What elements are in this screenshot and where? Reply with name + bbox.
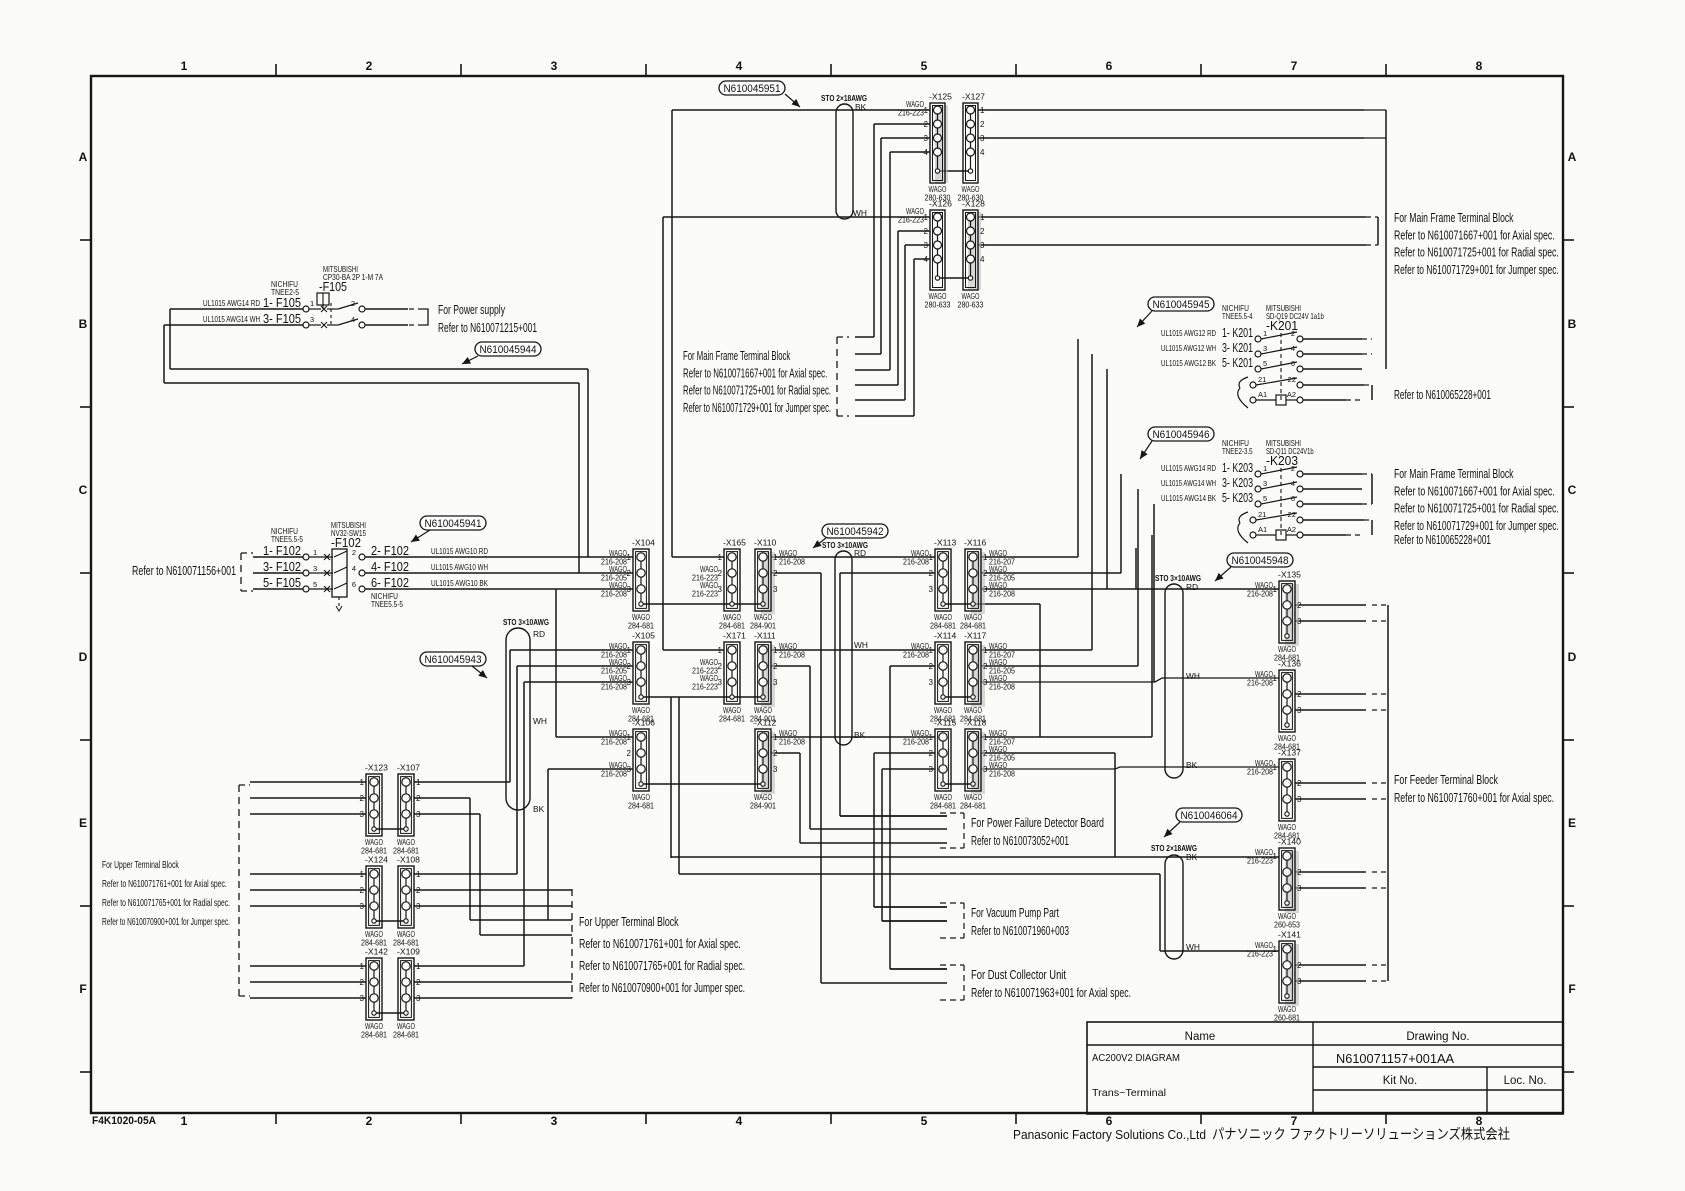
svg-text:284-681: 284-681	[719, 621, 745, 631]
svg-text:N610045944: N610045944	[480, 344, 537, 356]
svg-text:BK: BK	[1186, 760, 1198, 770]
svg-text:4: 4	[980, 255, 985, 264]
svg-text:Panasonic Factory Solutions Co: Panasonic Factory Solutions Co.,Ltd	[1013, 1127, 1206, 1142]
svg-text:4: 4	[352, 564, 356, 573]
svg-text:Refer to N610071761+001 for Ax: Refer to N610071761+001 for Axial spec.	[102, 879, 227, 890]
svg-text:3: 3	[313, 564, 317, 573]
svg-text:3: 3	[310, 315, 314, 324]
svg-text:3: 3	[980, 134, 985, 143]
svg-text:216-223: 216-223	[898, 108, 924, 118]
svg-text:216-208: 216-208	[989, 769, 1015, 779]
svg-text:パナソニック ファクトリーソリューションズ株式会社: パナソニック ファクトリーソリューションズ株式会社	[1212, 1127, 1510, 1143]
svg-text:280-633: 280-633	[958, 300, 984, 310]
svg-text:1: 1	[360, 778, 365, 787]
svg-text:For Upper Terminal Block: For Upper Terminal Block	[579, 914, 679, 929]
svg-text:216-223: 216-223	[1247, 856, 1273, 866]
svg-text:Refer to N610071760+001 for Ax: Refer to N610071760+001 for Axial spec.	[1394, 791, 1554, 805]
svg-text:For Dust Collector Unit: For Dust Collector Unit	[971, 968, 1066, 982]
svg-text:3: 3	[1297, 977, 1302, 986]
svg-text:1: 1	[980, 106, 985, 115]
svg-text:2: 2	[366, 59, 373, 73]
svg-text:284-681: 284-681	[960, 801, 986, 811]
svg-text:3- F105: 3- F105	[263, 311, 301, 326]
svg-text:-X111: -X111	[754, 631, 776, 641]
svg-text:1: 1	[313, 548, 317, 557]
svg-text:TNEE5.5-5: TNEE5.5-5	[371, 599, 403, 609]
svg-text:3: 3	[416, 810, 421, 819]
svg-text:2: 2	[360, 794, 365, 803]
svg-text:2: 2	[983, 569, 988, 578]
svg-text:284-681: 284-681	[628, 621, 654, 631]
svg-text:RD: RD	[533, 629, 545, 639]
svg-text:-X104: -X104	[632, 538, 655, 548]
svg-text:Refer to N610071960+003: Refer to N610071960+003	[971, 924, 1069, 938]
svg-text:-X125: -X125	[929, 92, 952, 102]
svg-text:Refer to N610071765+001 for Ra: Refer to N610071765+001 for Radial spec.	[579, 958, 745, 973]
svg-text:Refer to N610065228+001: Refer to N610065228+001	[1394, 388, 1491, 402]
svg-text:-X140: -X140	[1278, 837, 1301, 847]
svg-text:For Main Frame Terminal Block: For Main Frame Terminal Block	[683, 349, 791, 363]
svg-text:3: 3	[1297, 617, 1302, 626]
svg-text:E: E	[1568, 816, 1576, 830]
svg-text:N610045942: N610045942	[827, 526, 884, 538]
svg-text:216-208: 216-208	[989, 682, 1015, 692]
svg-text:22: 22	[1288, 375, 1296, 384]
svg-text:284-681: 284-681	[361, 1030, 387, 1040]
svg-text:3: 3	[551, 1114, 558, 1128]
svg-text:Refer to N610073052+001: Refer to N610073052+001	[971, 834, 1069, 848]
svg-text:6: 6	[1106, 1114, 1113, 1128]
svg-text:-X123: -X123	[365, 763, 388, 773]
svg-text:N610045945: N610045945	[1153, 299, 1210, 311]
svg-text:STO 3×10AWG: STO 3×10AWG	[503, 617, 549, 627]
svg-text:For Main Frame Terminal Block: For Main Frame Terminal Block	[1394, 211, 1514, 225]
svg-text:1: 1	[773, 646, 778, 655]
svg-text:-X106: -X106	[632, 718, 655, 728]
svg-text:6: 6	[1291, 359, 1295, 368]
svg-text:N610045946: N610045946	[1153, 429, 1210, 441]
svg-text:Refer to N610071667+001 for Ax: Refer to N610071667+001 for Axial spec.	[683, 366, 827, 380]
svg-text:1- K203: 1- K203	[1222, 460, 1253, 475]
svg-text:3: 3	[1297, 706, 1302, 715]
svg-text:3: 3	[416, 994, 421, 1003]
svg-text:BK: BK	[855, 102, 867, 112]
svg-text:Refer to N610071725+001 for Ra: Refer to N610071725+001 for Radial spec.	[1394, 246, 1559, 260]
svg-text:UL1015 AWG10 RD: UL1015 AWG10 RD	[431, 546, 488, 556]
svg-text:216-208: 216-208	[601, 682, 627, 692]
svg-text:A2: A2	[1287, 525, 1296, 534]
svg-text:5: 5	[921, 1114, 928, 1128]
svg-text:1: 1	[181, 59, 188, 73]
svg-text:2: 2	[416, 886, 421, 895]
svg-text:B: B	[79, 317, 88, 331]
svg-text:1: 1	[773, 733, 778, 742]
svg-text:-X124: -X124	[365, 855, 388, 865]
svg-text:1: 1	[360, 962, 365, 971]
svg-text:216-208: 216-208	[989, 589, 1015, 599]
svg-text:5: 5	[1263, 494, 1267, 503]
svg-text:B: B	[1568, 317, 1577, 331]
svg-text:2: 2	[1297, 690, 1302, 699]
svg-text:TNEE2-3.5: TNEE2-3.5	[1222, 446, 1253, 456]
svg-text:216-223: 216-223	[692, 589, 718, 599]
svg-text:-X114: -X114	[934, 631, 957, 641]
svg-text:3: 3	[360, 902, 365, 911]
svg-text:2: 2	[983, 749, 988, 758]
svg-text:3: 3	[773, 678, 778, 687]
svg-text:1: 1	[416, 962, 421, 971]
svg-text:RD: RD	[854, 548, 866, 558]
svg-text:-X126: -X126	[929, 199, 952, 209]
svg-text:-X136: -X136	[1278, 659, 1301, 669]
svg-text:3: 3	[929, 585, 934, 594]
svg-text:216-208: 216-208	[601, 737, 627, 747]
svg-text:N610046064: N610046064	[1181, 810, 1238, 822]
svg-text:-F102: -F102	[331, 536, 361, 550]
svg-text:1: 1	[627, 733, 632, 742]
svg-text:1: 1	[1273, 763, 1278, 772]
svg-text:2: 2	[360, 978, 365, 987]
svg-text:216-208: 216-208	[903, 737, 929, 747]
svg-text:RD: RD	[1186, 582, 1198, 592]
svg-text:UL1015 AWG10 WH: UL1015 AWG10 WH	[431, 562, 488, 572]
svg-text:-X135: -X135	[1278, 570, 1301, 580]
svg-text:-X137: -X137	[1278, 748, 1301, 758]
svg-text:1: 1	[929, 553, 934, 562]
svg-text:-X171: -X171	[723, 631, 746, 641]
svg-text:BK: BK	[854, 730, 866, 740]
svg-text:2: 2	[366, 1114, 373, 1128]
svg-text:1: 1	[924, 213, 929, 222]
svg-text:C: C	[1568, 483, 1577, 497]
svg-text:1: 1	[983, 553, 988, 562]
svg-text:D: D	[1568, 650, 1577, 664]
svg-text:AC200V2 DIAGRAM: AC200V2 DIAGRAM	[1092, 1052, 1180, 1064]
svg-text:UL1015 AWG12 BK: UL1015 AWG12 BK	[1161, 358, 1216, 368]
svg-text:4- F102: 4- F102	[371, 559, 409, 574]
svg-text:-F105: -F105	[319, 280, 347, 294]
svg-text:2: 2	[929, 662, 934, 671]
svg-text:UL1015 AWG12 RD: UL1015 AWG12 RD	[1161, 328, 1216, 338]
svg-text:1: 1	[416, 778, 421, 787]
svg-text:4: 4	[1291, 479, 1295, 488]
svg-text:D: D	[79, 650, 88, 664]
svg-text:Drawing No.: Drawing No.	[1406, 1031, 1469, 1043]
svg-text:5: 5	[1263, 359, 1267, 368]
svg-text:3: 3	[929, 765, 934, 774]
svg-text:2: 2	[924, 120, 929, 129]
svg-text:Loc. No.: Loc. No.	[1504, 1075, 1547, 1087]
svg-text:A: A	[1568, 150, 1577, 164]
svg-text:1: 1	[929, 733, 934, 742]
svg-text:1: 1	[416, 870, 421, 879]
svg-text:5: 5	[921, 59, 928, 73]
svg-text:22: 22	[1288, 510, 1296, 519]
svg-text:4: 4	[736, 59, 743, 73]
svg-text:N610045943: N610045943	[425, 654, 482, 666]
svg-text:-X108: -X108	[397, 855, 420, 865]
svg-text:3: 3	[773, 765, 778, 774]
svg-text:Refer to N610071215+001: Refer to N610071215+001	[438, 321, 537, 335]
svg-text:Refer to N610071761+001 for Ax: Refer to N610071761+001 for Axial spec.	[579, 936, 741, 951]
svg-text:3: 3	[1297, 884, 1302, 893]
svg-text:TNEE5.5-5: TNEE5.5-5	[271, 534, 303, 544]
svg-text:-X116: -X116	[964, 538, 987, 548]
svg-text:A1: A1	[1258, 525, 1267, 534]
svg-text:WH: WH	[533, 716, 547, 726]
svg-text:1: 1	[773, 553, 778, 562]
svg-text:UL1015 AWG14 WH: UL1015 AWG14 WH	[1161, 478, 1216, 488]
svg-text:260-653: 260-653	[1274, 920, 1300, 930]
svg-text:F: F	[1568, 982, 1575, 996]
svg-text:Refer to N610071729+001 for Ju: Refer to N610071729+001 for Jumper spec.	[1394, 519, 1559, 533]
svg-text:BK: BK	[533, 804, 545, 814]
svg-text:2: 2	[416, 794, 421, 803]
svg-text:Refer to N610070900+001 for Ju: Refer to N610070900+001 for Jumper spec.	[102, 917, 230, 928]
svg-text:5- K201: 5- K201	[1222, 355, 1253, 370]
svg-text:3: 3	[416, 902, 421, 911]
svg-text:1: 1	[1273, 945, 1278, 954]
svg-text:3: 3	[983, 585, 988, 594]
svg-text:8: 8	[1476, 59, 1483, 73]
svg-text:-X141: -X141	[1278, 930, 1301, 940]
svg-text:6: 6	[1291, 494, 1295, 503]
svg-text:7: 7	[1291, 59, 1298, 73]
svg-text:E: E	[79, 816, 87, 830]
svg-text:284-681: 284-681	[393, 1030, 419, 1040]
svg-text:4: 4	[351, 315, 355, 324]
svg-text:TNEE2-5: TNEE2-5	[271, 287, 299, 297]
svg-text:-X118: -X118	[964, 718, 987, 728]
svg-text:4: 4	[1291, 344, 1295, 353]
svg-text:3: 3	[983, 678, 988, 687]
svg-text:UL1015 AWG14 WH: UL1015 AWG14 WH	[203, 314, 260, 324]
svg-text:Refer to N610065228+001: Refer to N610065228+001	[1394, 533, 1491, 547]
svg-text:1: 1	[718, 553, 723, 562]
svg-text:216-208: 216-208	[779, 650, 805, 660]
svg-text:2: 2	[627, 569, 632, 578]
svg-text:1: 1	[310, 299, 314, 308]
svg-text:2: 2	[1297, 779, 1302, 788]
svg-text:1: 1	[1273, 852, 1278, 861]
svg-text:284-681: 284-681	[930, 801, 956, 811]
svg-text:Refer to N610071725+001 for Ra: Refer to N610071725+001 for Radial spec.	[683, 384, 831, 398]
svg-text:4: 4	[924, 255, 929, 264]
svg-text:Refer to N610071729+001 for Ju: Refer to N610071729+001 for Jumper spec.	[683, 401, 831, 415]
svg-text:3- F102: 3- F102	[263, 559, 301, 574]
svg-text:2: 2	[360, 886, 365, 895]
svg-text:N610045948: N610045948	[1232, 555, 1289, 567]
svg-text:2: 2	[773, 569, 778, 578]
svg-text:216-208: 216-208	[601, 769, 627, 779]
svg-text:2: 2	[980, 120, 985, 129]
svg-text:1- F105: 1- F105	[263, 295, 301, 310]
svg-text:216-208: 216-208	[1247, 589, 1273, 599]
svg-text:284-901: 284-901	[750, 801, 776, 811]
svg-text:21: 21	[1258, 375, 1266, 384]
svg-text:3: 3	[627, 765, 632, 774]
svg-text:For Power supply: For Power supply	[438, 303, 506, 317]
svg-text:1: 1	[627, 553, 632, 562]
svg-text:1: 1	[929, 646, 934, 655]
svg-text:284-681: 284-681	[628, 801, 654, 811]
svg-text:7: 7	[1291, 1114, 1298, 1128]
svg-text:2: 2	[983, 662, 988, 671]
svg-text:284-901: 284-901	[750, 621, 776, 631]
svg-text:5- F105: 5- F105	[263, 575, 301, 590]
svg-text:For Vacuum Pump Part: For Vacuum Pump Part	[971, 906, 1059, 920]
svg-text:UL1015 AWG12 WH: UL1015 AWG12 WH	[1161, 343, 1216, 353]
svg-text:3: 3	[773, 585, 778, 594]
svg-text:4: 4	[980, 148, 985, 157]
svg-text:6: 6	[1106, 59, 1113, 73]
svg-text:2: 2	[773, 662, 778, 671]
svg-text:5- K203: 5- K203	[1222, 490, 1253, 505]
svg-text:2: 2	[773, 749, 778, 758]
svg-text:A1: A1	[1258, 390, 1267, 399]
svg-text:-X110: -X110	[754, 538, 777, 548]
svg-text:2: 2	[929, 749, 934, 758]
svg-text:2: 2	[718, 569, 723, 578]
svg-text:Refer to N610071963+001 for Ax: Refer to N610071963+001 for Axial spec.	[971, 986, 1131, 1000]
svg-text:For Feeder Terminal Block: For Feeder Terminal Block	[1394, 773, 1499, 787]
svg-text:2: 2	[351, 299, 355, 308]
svg-text:216-208: 216-208	[601, 589, 627, 599]
svg-text:-X127: -X127	[962, 92, 985, 102]
svg-text:284-681: 284-681	[960, 621, 986, 631]
svg-text:N610045951: N610045951	[724, 83, 781, 95]
svg-text:2: 2	[929, 569, 934, 578]
svg-text:-X115: -X115	[934, 718, 957, 728]
svg-text:3- K201: 3- K201	[1222, 340, 1253, 355]
svg-text:-X128: -X128	[962, 199, 985, 209]
svg-text:3: 3	[1263, 344, 1267, 353]
svg-text:Kit No.: Kit No.	[1383, 1075, 1418, 1087]
svg-text:-X165: -X165	[723, 538, 746, 548]
svg-text:2: 2	[718, 662, 723, 671]
svg-text:3: 3	[718, 585, 723, 594]
svg-text:284-681: 284-681	[930, 621, 956, 631]
svg-text:216-208: 216-208	[903, 557, 929, 567]
svg-text:3: 3	[627, 678, 632, 687]
svg-text:216-208: 216-208	[1247, 678, 1273, 688]
svg-text:2- F102: 2- F102	[371, 543, 409, 558]
svg-text:216-223: 216-223	[898, 215, 924, 225]
svg-text:2: 2	[980, 227, 985, 236]
svg-text:-X113: -X113	[934, 538, 957, 548]
svg-text:3: 3	[980, 241, 985, 250]
svg-text:1: 1	[983, 733, 988, 742]
svg-text:Refer to N610071667+001 for Ax: Refer to N610071667+001 for Axial spec.	[1394, 228, 1555, 242]
svg-text:2: 2	[1297, 961, 1302, 970]
svg-text:2: 2	[416, 978, 421, 987]
svg-text:1- F102: 1- F102	[263, 543, 301, 558]
svg-text:Refer to N610071725+001 for Ra: Refer to N610071725+001 for Radial spec.	[1394, 502, 1559, 516]
svg-text:BK: BK	[1186, 852, 1198, 862]
svg-text:Refer to N610071667+001 for Ax: Refer to N610071667+001 for Axial spec.	[1394, 484, 1555, 498]
svg-text:2: 2	[627, 749, 632, 758]
svg-text:-X105: -X105	[632, 631, 655, 641]
svg-text:-X109: -X109	[397, 947, 420, 957]
svg-text:UL1015 AWG14 RD: UL1015 AWG14 RD	[1161, 463, 1216, 473]
svg-text:TNEE5.5-4: TNEE5.5-4	[1222, 311, 1253, 321]
svg-text:WH: WH	[854, 640, 868, 650]
svg-text:1: 1	[924, 106, 929, 115]
svg-text:2: 2	[1297, 868, 1302, 877]
svg-text:-X142: -X142	[365, 947, 388, 957]
svg-text:260-681: 260-681	[1274, 1013, 1300, 1023]
svg-text:3: 3	[929, 678, 934, 687]
svg-text:UL1015 AWG14 BK: UL1015 AWG14 BK	[1161, 493, 1216, 503]
svg-text:For Main Frame Terminal Block: For Main Frame Terminal Block	[1394, 467, 1514, 481]
svg-text:1: 1	[181, 1114, 188, 1128]
svg-text:1- K201: 1- K201	[1222, 325, 1253, 340]
svg-text:Refer to N610071765+001 for Ra: Refer to N610071765+001 for Radial spec.	[102, 898, 230, 909]
svg-text:WH: WH	[853, 208, 867, 218]
svg-text:3: 3	[983, 765, 988, 774]
svg-text:3- K203: 3- K203	[1222, 475, 1253, 490]
svg-text:2: 2	[627, 662, 632, 671]
svg-text:UL1015 AWG10 BK: UL1015 AWG10 BK	[431, 578, 488, 588]
svg-text:6- F102: 6- F102	[371, 575, 409, 590]
svg-text:3: 3	[360, 810, 365, 819]
svg-text:8: 8	[1476, 1114, 1483, 1128]
svg-text:For Upper Terminal Block: For Upper Terminal Block	[102, 860, 179, 871]
svg-text:3: 3	[1297, 795, 1302, 804]
svg-text:F: F	[79, 982, 86, 996]
svg-text:3: 3	[718, 678, 723, 687]
svg-text:5: 5	[313, 580, 317, 589]
svg-text:-K201: -K201	[1266, 319, 1298, 333]
svg-text:-K203: -K203	[1266, 454, 1298, 468]
svg-text:3: 3	[551, 59, 558, 73]
svg-text:2: 2	[924, 227, 929, 236]
svg-text:1: 1	[360, 870, 365, 879]
svg-text:216-208: 216-208	[1247, 767, 1273, 777]
svg-text:216-208: 216-208	[903, 650, 929, 660]
svg-text:1: 1	[1273, 674, 1278, 683]
svg-text:1: 1	[627, 646, 632, 655]
svg-text:Refer to N610070900+001 for Ju: Refer to N610070900+001 for Jumper spec.	[579, 980, 745, 995]
svg-text:6: 6	[352, 580, 356, 589]
svg-text:C: C	[79, 483, 88, 497]
svg-text:216-223: 216-223	[692, 682, 718, 692]
svg-text:1: 1	[1273, 585, 1278, 594]
svg-text:3: 3	[360, 994, 365, 1003]
svg-text:216-208: 216-208	[779, 557, 805, 567]
svg-text:1: 1	[718, 646, 723, 655]
svg-text:F4K1020-05A: F4K1020-05A	[92, 1115, 156, 1127]
svg-text:A2: A2	[1287, 390, 1296, 399]
svg-text:Refer to N610071156+001: Refer to N610071156+001	[132, 564, 236, 578]
svg-text:For Power Failure Detector Boa: For Power Failure Detector Board	[971, 816, 1104, 830]
svg-text:4: 4	[736, 1114, 743, 1128]
svg-text:1: 1	[980, 213, 985, 222]
svg-text:4: 4	[924, 148, 929, 157]
svg-text:-X117: -X117	[964, 631, 987, 641]
svg-text:3: 3	[924, 241, 929, 250]
svg-text:216-208: 216-208	[779, 737, 805, 747]
svg-text:Trans~Terminal: Trans~Terminal	[1092, 1087, 1166, 1099]
svg-text:284-681: 284-681	[719, 714, 745, 724]
svg-text:2: 2	[1297, 601, 1302, 610]
svg-text:A: A	[79, 150, 88, 164]
svg-text:216-223: 216-223	[1247, 949, 1273, 959]
svg-text:-X107: -X107	[397, 763, 420, 773]
svg-text:3: 3	[924, 134, 929, 143]
svg-text:WH: WH	[1186, 942, 1200, 952]
svg-text:Name: Name	[1185, 1031, 1216, 1043]
